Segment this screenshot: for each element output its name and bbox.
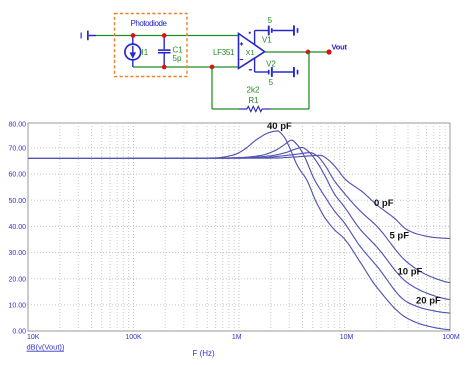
resistor R1: [239, 86, 271, 112]
svg-text:10.00: 10.00: [8, 303, 26, 310]
svg-text:50.00: 50.00: [8, 198, 26, 205]
svg-text:Vout: Vout: [332, 42, 348, 51]
x axis title: [192, 349, 215, 358]
battery V2: [255, 59, 299, 87]
capacitor C1: [158, 36, 183, 67]
y axis labels: [8, 121, 26, 335]
junction feedback left: [210, 65, 215, 70]
curve 20 pF: [28, 140, 450, 313]
svg-text:LF351: LF351: [213, 48, 235, 57]
svg-text:V1: V1: [262, 35, 272, 44]
svg-text:100M: 100M: [442, 334, 460, 341]
op-amp X1 LF351: [213, 32, 265, 70]
svg-text:10 pF: 10 pF: [398, 267, 423, 278]
svg-text:0.00: 0.00: [12, 329, 26, 336]
op-amp positive supply pin: [254, 31, 256, 46]
battery V1: [255, 16, 299, 44]
svg-text:5p: 5p: [173, 54, 182, 63]
junction I1 top: [131, 33, 136, 38]
svg-text:5 pF: 5 pF: [390, 231, 410, 242]
svg-text:40 pF: 40 pF: [267, 121, 292, 132]
svg-text:20 pF: 20 pF: [416, 296, 441, 307]
svg-text:dB(v(Vout)): dB(v(Vout)): [27, 342, 65, 351]
junction output: [306, 50, 311, 55]
op-amp negative supply pin: [254, 58, 256, 72]
output terminal Vout: [326, 42, 347, 54]
svg-text:70.00: 70.00: [8, 146, 26, 153]
wire op-amp output to feedback junction: [265, 51, 308, 53]
label 40 pF: [267, 121, 292, 132]
svg-text:X1: X1: [246, 48, 255, 57]
wire I1 bottom to C1 bottom: [133, 66, 164, 68]
current source I1: [125, 36, 149, 67]
svg-text:1M: 1M: [232, 334, 242, 341]
svg-text:Photodiode: Photodiode: [131, 19, 168, 28]
junction C1 bottom: [162, 65, 167, 70]
input terminal I: [80, 31, 96, 41]
svg-text:5: 5: [268, 16, 273, 25]
svg-text:R1: R1: [248, 96, 259, 105]
svg-text:2k2: 2k2: [247, 86, 260, 95]
curve 5 pF: [28, 153, 450, 283]
x axis labels: [27, 334, 460, 341]
svg-text:I: I: [80, 32, 82, 41]
junction C1 top: [162, 33, 167, 38]
feedback wire right vertical: [308, 52, 310, 109]
svg-text:F (Hz): F (Hz): [192, 349, 215, 358]
svg-text:0 pF: 0 pF: [374, 198, 394, 209]
photodiode enclosure box: [115, 14, 188, 77]
wire feedback junction to output terminal: [308, 51, 329, 53]
legend dB(v(Vout)): [27, 342, 65, 351]
feedback wire left vertical: [211, 67, 213, 109]
svg-text:40.00: 40.00: [8, 224, 26, 231]
svg-text:5: 5: [269, 78, 274, 87]
svg-text:V2: V2: [266, 59, 276, 68]
feedback wire bottom left: [212, 108, 239, 110]
label 10 pF: [398, 267, 423, 278]
wire I1 top to C1 top: [133, 35, 164, 37]
feedback wire bottom right: [271, 108, 310, 110]
chart grid: [28, 123, 450, 331]
wire C1 bottom to feedback junction: [164, 66, 212, 68]
label 0 pF: [374, 198, 394, 209]
svg-text:80.00: 80.00: [8, 121, 26, 128]
svg-text:10M: 10M: [340, 334, 354, 341]
svg-text:I1: I1: [142, 48, 149, 57]
label 5 pF: [390, 231, 410, 242]
svg-text:100K: 100K: [125, 334, 142, 341]
wire C1 top to op-amp noninverting input: [164, 35, 238, 37]
label 20 pF: [416, 296, 441, 307]
chart frame: [28, 123, 450, 331]
wire feedback junction to op-amp inverting input: [212, 66, 239, 68]
wire input to I1 top: [96, 35, 133, 37]
svg-text:10K: 10K: [27, 334, 40, 341]
svg-text:30.00: 30.00: [8, 250, 26, 257]
svg-text:60.00: 60.00: [8, 172, 26, 179]
curve 10 pF: [28, 147, 450, 299]
curve 40 pF: [28, 131, 450, 330]
curve 0 pF: [28, 155, 450, 238]
svg-text:20.00: 20.00: [8, 276, 26, 283]
